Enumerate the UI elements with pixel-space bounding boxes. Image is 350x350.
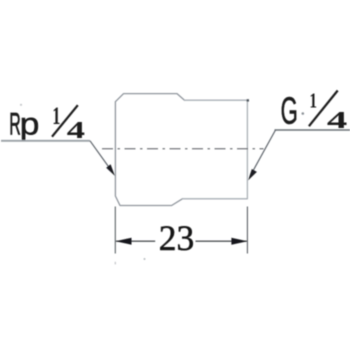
extension line ghost: [115, 262, 116, 265]
label G 1/4: [281, 89, 348, 134]
extension line left: [114, 207, 116, 254]
fraction slash (G 1/4): [309, 91, 338, 127]
dimension arrow right: [231, 238, 247, 245]
leader underline G: [275, 129, 350, 131]
leader underline Rp: [1, 140, 90, 142]
corner dot artifact: [247, 99, 249, 101]
extension line right: [246, 207, 248, 254]
body outline (right small section): [182, 100, 247, 199]
svg-text:p: p: [20, 105, 40, 141]
svg-text:1: 1: [52, 103, 60, 130]
fraction slash (Rp 1/4): [52, 105, 78, 137]
arrowhead G (points to right edge): [248, 169, 257, 181]
svg-text:23: 23: [159, 218, 195, 258]
label Rp 1/4: [9, 103, 85, 144]
speck artifact near G: [302, 112, 305, 115]
centerline (dash-dot axis): [102, 148, 264, 150]
leader diagonal Rp: [90, 141, 112, 172]
svg-text:1: 1: [309, 89, 317, 113]
arrowhead Rp (points to left edge): [106, 164, 115, 176]
dimension line 23: [116, 240, 155, 242]
speck artifact: [144, 258, 146, 260]
speck artifact near Rp: [20, 104, 22, 106]
svg-text:G: G: [281, 90, 298, 132]
dimension arrow left: [116, 238, 132, 245]
body outline (fitting profile, left large section): [115, 94, 184, 206]
leader diagonal G: [251, 130, 276, 175]
